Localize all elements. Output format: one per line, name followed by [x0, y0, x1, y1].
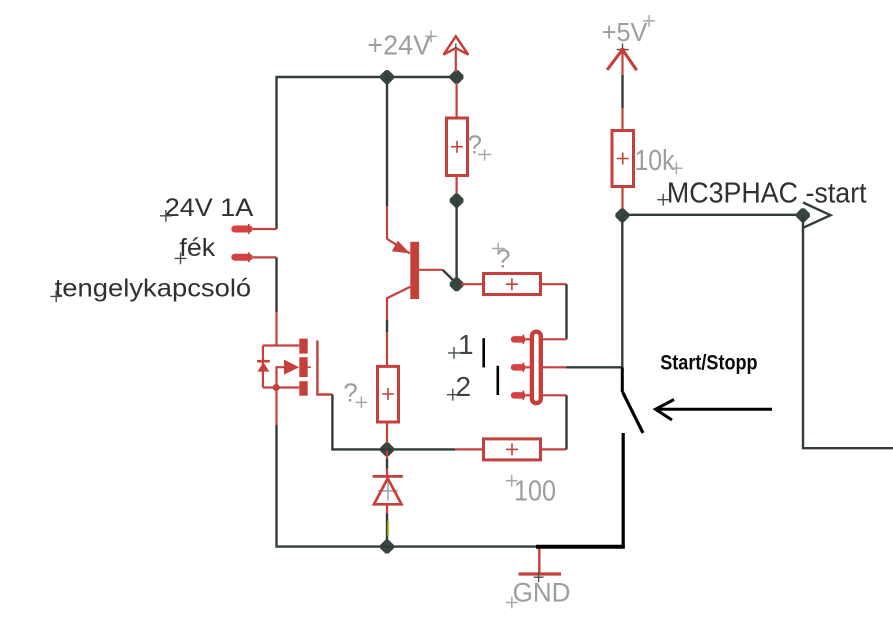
resistor R2 bottom pin [386, 422, 388, 449]
mosfet Q2 zener bar [257, 360, 270, 363]
wire fek pin down to mosfet [275, 257, 277, 312]
resistor R4 bottom pin [621, 187, 623, 216]
origin cross of 24V 1A [160, 210, 172, 222]
supply +24V arrow symbol [444, 36, 469, 54]
resistor R4 10k body [612, 131, 634, 187]
wire pin2 net to switch column [567, 366, 623, 368]
annotation hand arrow barbs [656, 400, 675, 421]
resistor R100 left pin [455, 448, 484, 450]
annotation tick mark B near pin2 [496, 366, 499, 395]
origin cross of +5V label [643, 15, 655, 27]
ground origin cross [534, 572, 544, 582]
origin cross of label 1 [448, 347, 460, 359]
mosfet Q2 middle contact rect [299, 357, 307, 377]
svg-text:2: 2 [456, 371, 472, 402]
mosfet Q2 drain contact rect [299, 339, 307, 354]
diode D1 cathode bar [373, 475, 403, 478]
origin cross of +24V label [425, 31, 437, 43]
diode D1 triangle [374, 478, 402, 504]
annotation tick mark A near pin1 [482, 338, 485, 367]
annotation switch lower wire [622, 433, 625, 548]
resistor R3 "?" horizontal left pin [461, 283, 484, 285]
transistor Q1 collector diagonal [387, 287, 410, 320]
mosfet Q2 junction dot [273, 384, 280, 391]
mosfet Q2 source contact rect [299, 381, 307, 396]
svg-text:+5V: +5V [602, 17, 648, 47]
wire collector segment [386, 320, 388, 332]
diode D1 top pin [386, 449, 388, 459]
diode D1 triangle outline [374, 478, 402, 504]
resistor R100 right pin [541, 448, 567, 450]
svg-text:+24V: +24V [367, 30, 431, 61]
mosfet Q2 bottom horizontal [263, 386, 299, 388]
node junction at 387,449.4 [380, 443, 394, 457]
node junction at 456.6,200.5 [450, 194, 464, 208]
wire diode to bottom rail [386, 514, 388, 547]
svg-text:Start/Stopp: Start/Stopp [660, 351, 757, 374]
svg-text:100: 100 [514, 476, 556, 508]
svg-text:MC3PHAC -start: MC3PHAC -start [667, 178, 867, 210]
node junction at 456.6,284.4 [450, 278, 464, 292]
svg-text:1: 1 [458, 329, 474, 360]
annotation switch diagonal [623, 392, 643, 433]
node junction at 622.3,215.4 [615, 209, 629, 223]
supply +5V arrow symbol [617, 44, 629, 53]
pin 24V 1A blob [231, 226, 252, 233]
mosfet Q2 zener triangle [257, 362, 269, 371]
pin fek blob [231, 254, 252, 261]
transistor Q1 base lead red [419, 269, 443, 271]
connector SV1 body [532, 332, 541, 403]
connector pin 3 blob [511, 392, 526, 399]
node junction at 387,546.6 [380, 540, 394, 554]
net arrow chevron [803, 203, 831, 228]
annotation switch upper stroke [621, 367, 624, 392]
wire 10k junction down to pin2 net [621, 215, 623, 367]
connector pin 2 blob [511, 364, 526, 371]
node junction at 387,77 [380, 70, 394, 84]
wire source to R100 rail [332, 395, 455, 450]
ground GND stub [538, 547, 540, 574]
origin cross of R1 label [478, 149, 492, 160]
transistor Q1 base bar [410, 242, 419, 299]
pin fek lead [253, 256, 277, 258]
wire +24V rail: left drop to pin and top horizontal [277, 77, 457, 229]
diode D1 origin cross [378, 481, 398, 501]
resistor R3 right pin [541, 283, 567, 285]
origin cross of tengelykapcsolo [50, 291, 62, 303]
node junction at 803,215.2 [796, 208, 810, 222]
wire base diagonal to junction [443, 270, 455, 282]
annotation bottom thick wire [536, 545, 625, 549]
resistor R2 "?" vertical body [378, 366, 399, 422]
resistor R100 body [484, 439, 541, 460]
node junction at 456.6,77 [450, 70, 464, 84]
wire R3 right down to connector pin1 [565, 284, 567, 339]
origin cross of 10k label [671, 162, 683, 174]
wire down right side [803, 215, 893, 448]
wire MC3PHAC net [622, 214, 803, 216]
mosfet Q2 source line [317, 340, 332, 394]
wire mosfet gate down [275, 388, 277, 426]
svg-text:24V 1A: 24V 1A [165, 194, 254, 222]
origin cross of GND label [506, 597, 518, 609]
origin cross of 100 [506, 475, 518, 487]
mosfet Q2 gate lead [277, 367, 285, 387]
transistor Q1 PNP emitter diagonal [387, 239, 410, 254]
ground GND bar [519, 572, 561, 575]
svg-text:10k: 10k [635, 145, 675, 177]
resistor R1 "?" under +24V : top pin [456, 83, 458, 118]
origin cross of label 2 [447, 389, 459, 401]
resistor R1 body [447, 118, 468, 176]
wire 456.6,200.5 down to 284.4 [455, 201, 457, 285]
mosfet Q2 top horizontal [263, 344, 299, 346]
wire emitter drop from top rail [386, 77, 388, 206]
mosfet Q2 left vertical [262, 346, 264, 388]
wire +5V stub [621, 52, 623, 75]
connector pin 1 blob [511, 336, 526, 343]
wire highlight yellow segment [387, 521, 389, 536]
origin cross of R2 label [356, 397, 368, 409]
resistor R3 body [484, 274, 541, 295]
wire bottom rail [277, 425, 541, 547]
svg-text:GND: GND [513, 578, 571, 608]
resistor R1 bottom pin [456, 176, 458, 201]
pin 24V 1A lead [253, 228, 277, 230]
mosfet Q2 gate arrow [284, 360, 299, 375]
origin cross of fek [175, 253, 187, 265]
mosfet Q2 substrate stub [308, 366, 311, 368]
annotation hand arrow shaft [656, 408, 773, 411]
transistor Q1 emitter arrow [392, 241, 410, 254]
diode D1 bottom pin [386, 504, 388, 513]
origin cross of MC3PHAC label [657, 194, 669, 206]
wire +5V down to 10k [621, 75, 623, 108]
svg-text:tengelykapcsoló: tengelykapcsoló [55, 274, 252, 302]
wire supply stub +24V [455, 50, 457, 72]
origin cross of R3 label [492, 243, 505, 254]
wire pin3 net down to R100 [565, 395, 567, 449]
